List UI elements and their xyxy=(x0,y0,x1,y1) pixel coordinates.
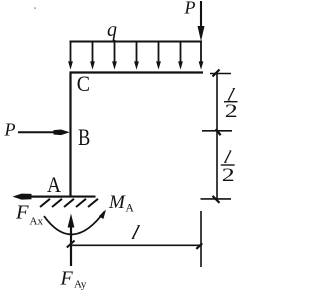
distributed load q: arrow 3 xyxy=(112,42,117,70)
svg-text:Ax: Ax xyxy=(30,216,44,228)
reaction label F_Ay xyxy=(60,268,87,291)
right dimension: middle extension tick xyxy=(202,130,232,132)
stray scan speck xyxy=(34,7,36,9)
reaction label F_Ax xyxy=(15,202,43,228)
distributed load q: arrow 1 xyxy=(68,42,73,70)
fixed support: ground line and reaction F_Ax arrow xyxy=(13,194,96,200)
svg-text:F: F xyxy=(15,202,29,224)
right dimension: bottom extension tick xyxy=(201,198,232,200)
load label q xyxy=(107,19,117,41)
svg-text:2: 2 xyxy=(225,101,238,122)
right dimension: slash tick at top xyxy=(213,70,220,77)
reaction moment M_A: arc arrow xyxy=(44,210,106,235)
svg-text:Ay: Ay xyxy=(74,279,87,291)
right dimension: vertical line xyxy=(216,74,218,201)
beam C to right end (top member) xyxy=(70,71,204,73)
svg-text:F: F xyxy=(60,268,74,290)
dimension label l/2 (lower) xyxy=(221,147,235,185)
dimension l (bottom): right slash tick xyxy=(196,243,202,249)
dimension l (bottom): line xyxy=(71,244,201,246)
force P at B: arrow xyxy=(18,130,70,136)
svg-text:P: P xyxy=(4,120,16,140)
dimension label l (bottom) xyxy=(129,222,142,243)
right dimension: slash tick at middle xyxy=(216,129,221,135)
svg-text:q: q xyxy=(107,19,117,41)
node label B xyxy=(78,124,90,151)
distributed load q: arrow 5 xyxy=(156,42,161,70)
dimension label l/2 (upper) xyxy=(224,85,238,121)
svg-text:B: B xyxy=(78,124,90,151)
distributed load q: arrow 2 xyxy=(90,42,95,70)
reaction F_Ay: vertical arrow xyxy=(68,214,75,267)
svg-text:M: M xyxy=(108,192,126,213)
distributed load q: arrow 4 xyxy=(134,42,139,70)
node label C xyxy=(77,71,90,96)
svg-text:C: C xyxy=(77,71,90,96)
right dimension: slash tick at bottom xyxy=(213,196,220,203)
distributed load q: arrow 6 xyxy=(178,42,183,70)
force P at top right: arrow xyxy=(198,1,205,41)
node label A xyxy=(47,174,61,197)
svg-text:P: P xyxy=(184,0,196,18)
dimension l (bottom): left slash tick xyxy=(67,241,75,248)
svg-text:A: A xyxy=(126,203,135,215)
distributed load q: top load line xyxy=(70,41,203,43)
svg-text:2: 2 xyxy=(222,165,235,186)
svg-text:A: A xyxy=(47,174,61,197)
fixed support: hatching xyxy=(40,199,98,207)
column A-B-C (vertical member) xyxy=(69,72,71,197)
svg-text:l: l xyxy=(129,222,142,243)
force label P (left) xyxy=(4,120,16,140)
moment label M_A xyxy=(108,192,135,215)
right extension line (bottom, from beam end down) xyxy=(200,211,202,267)
distributed load q: arrow 7 xyxy=(199,42,204,70)
right dimension: top extension tick xyxy=(210,73,231,75)
force label P (top) xyxy=(184,0,196,18)
